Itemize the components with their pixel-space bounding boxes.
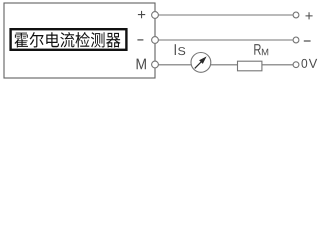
outer box: hall current detector block <box>4 3 155 78</box>
label Is <box>175 44 176 55</box>
wire M row segment 3 <box>262 64 293 66</box>
current source / meter Is circle <box>191 53 211 73</box>
right terminal circle 0V <box>293 62 299 68</box>
label RM <box>254 44 261 55</box>
inner box border <box>11 29 127 50</box>
wire + row <box>158 14 293 16</box>
terminal label + <box>138 11 145 18</box>
right label + <box>306 12 313 19</box>
resistor RM body <box>238 61 262 71</box>
right terminal circle - <box>293 37 299 43</box>
right terminal circle + <box>293 12 299 18</box>
terminal label - <box>137 39 143 40</box>
terminal circle M (on box edge) <box>152 61 159 68</box>
wire M row segment 1 <box>158 64 191 66</box>
meter needle arrowhead <box>199 56 207 64</box>
right label - <box>304 40 311 41</box>
wire - row <box>158 39 293 41</box>
wire M row segment 2 <box>210 64 237 66</box>
terminal label M <box>137 59 146 70</box>
meter needle <box>195 62 202 69</box>
terminal circle - (on box edge) <box>152 37 159 44</box>
right label 0V <box>302 59 308 68</box>
terminal circle + (on box edge) <box>152 12 159 19</box>
label 霍尔电流检测器 (vector outlines) <box>15 32 121 48</box>
